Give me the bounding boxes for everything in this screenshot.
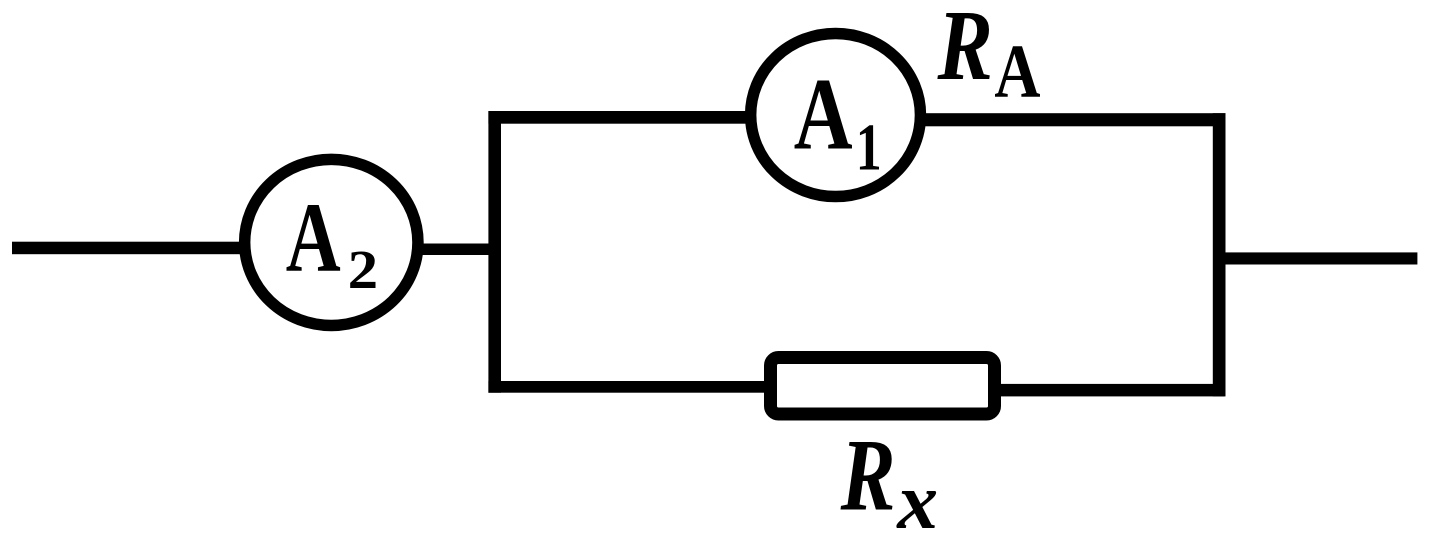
svg-text:1: 1: [856, 110, 882, 184]
ammeter A2: [245, 159, 418, 325]
svg-text:A: A: [286, 184, 341, 294]
svg-text:R: R: [840, 419, 896, 533]
wire A2 to left junction: [413, 244, 495, 256]
label Rx: [840, 419, 938, 535]
wire output lead: [1213, 252, 1417, 264]
wire left lead: [12, 242, 248, 255]
svg-text:A: A: [794, 58, 853, 172]
svg-text:x: x: [896, 456, 938, 535]
wire right vertical bus: [1213, 113, 1226, 396]
svg-text:A: A: [994, 30, 1040, 113]
svg-text:2: 2: [348, 239, 378, 301]
svg-text:R: R: [937, 0, 993, 102]
wire bottom branch right: [995, 384, 1225, 397]
wire bottom branch left: [488, 381, 770, 393]
resistor Rx: [771, 358, 995, 415]
wire left vertical bus: [488, 111, 501, 393]
label RA: [937, 0, 1041, 114]
wire top branch left: [488, 111, 748, 124]
ammeter A1: [751, 33, 921, 196]
wire top branch right: [922, 113, 1226, 126]
